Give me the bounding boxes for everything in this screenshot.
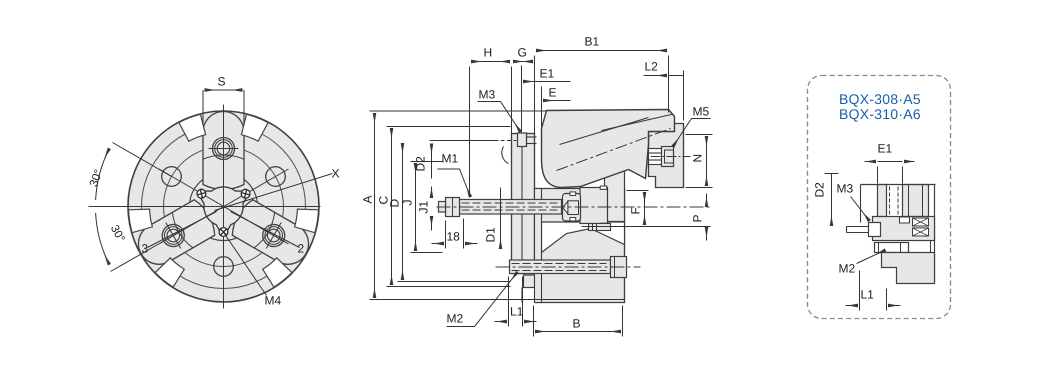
18 dim: [445, 221, 447, 249]
white pocket above scroll: [542, 222, 625, 253]
main centerline: [437, 206, 711, 208]
30deg label upper: [89, 169, 102, 187]
body lower mass: [536, 189, 625, 303]
jaw arm lower-right: [131, 197, 219, 272]
M3 screw detail: [869, 223, 881, 237]
detail rim strips: [878, 185, 887, 217]
L2 dim: [683, 71, 685, 121]
M5 centerline: [635, 156, 691, 158]
G dim: [511, 67, 513, 134]
30deg label lower: [111, 224, 126, 242]
jaw slant line1: [560, 118, 649, 145]
D dim: [402, 143, 404, 280]
rim wedge slot right of top arm: [241, 114, 268, 141]
bevel pinion socket: [568, 201, 579, 215]
arm step arcs: [203, 155, 244, 159]
jaw arm top: [203, 111, 244, 189]
jaw slant line2: [602, 114, 674, 131]
D2 dim: [431, 144, 433, 179]
M1 screw head: [446, 198, 460, 217]
back plate: [512, 134, 535, 274]
M2 leader: [447, 272, 518, 327]
N block: [649, 124, 684, 188]
block tabs: [570, 192, 576, 196]
F dim: [627, 190, 649, 192]
M4 label leader: [224, 233, 267, 296]
chuck outer disk: [128, 111, 319, 302]
small arc near fillet: [502, 147, 509, 164]
M2 screw: [510, 260, 611, 274]
bolt circle r60: [164, 147, 284, 267]
blue model text 2: [840, 109, 920, 121]
J1 dim: [431, 187, 433, 199]
hub strip: [535, 189, 542, 303]
M3 leader detail: [851, 197, 870, 222]
bolt hole 150deg: [162, 167, 182, 187]
M4 screw 270: [219, 228, 228, 237]
hub circle r34: [190, 173, 258, 241]
dim texts: [585, 37, 598, 45]
A dim: [374, 113, 376, 298]
arm screw top: [209, 134, 239, 164]
M5 pocket: [649, 149, 662, 165]
lower body step: [882, 253, 935, 284]
M5 screw head: [662, 147, 674, 167]
blue model text 1: [840, 94, 920, 106]
centerline horizontal: [89, 206, 321, 208]
centerline vertical: [223, 105, 225, 309]
L1 dim detail: [859, 271, 861, 311]
E1 dim: [521, 66, 523, 133]
bolt hole 270deg: [214, 257, 234, 277]
C dim: [391, 128, 393, 285]
M1 screw shaft: [460, 200, 562, 215]
leaders: [438, 102, 711, 327]
rim wedge slot left of top arm: [179, 114, 206, 141]
N dim: [686, 134, 713, 136]
B1 dim: [534, 56, 536, 134]
jaw arm lower-left: [228, 197, 316, 272]
jaw wedge: [542, 110, 675, 188]
pinion block big: [580, 188, 608, 224]
M5 leader: [673, 119, 711, 147]
body upper-right rim: [605, 169, 625, 222]
L1 dim: [508, 277, 510, 327]
jaw dash centerline: [557, 129, 671, 171]
M1 leader: [438, 169, 471, 197]
30 deg angle lines: [96, 142, 224, 272]
bevel cone: [563, 201, 568, 213]
bolt hole 30deg: [266, 167, 286, 187]
diag centerline 30-210: [159, 169, 289, 244]
H dim: [469, 67, 471, 197]
scroll trefoil hub: [199, 187, 247, 234]
P dim: [706, 194, 708, 208]
wedges of lower-left arm: [289, 201, 326, 238]
J dim: [415, 163, 417, 251]
bearing squares: [900, 217, 929, 236]
B dim: [533, 306, 535, 337]
M2 leader detail: [857, 250, 886, 264]
M3 leader: [478, 102, 521, 133]
label 2: [231, 212, 300, 248]
mid band: [873, 217, 935, 241]
M2 screw detail: [875, 243, 909, 253]
wedges of lower-right arm: [153, 255, 190, 292]
S dimension: [203, 90, 244, 125]
E dim: [541, 87, 543, 127]
D2 dim detail: [825, 173, 839, 175]
D1 dim: [500, 188, 502, 250]
E1 dim detail: [825, 162, 915, 311]
X label and leader: [215, 174, 333, 211]
M3 screw top: [518, 133, 527, 147]
set screw small: [589, 224, 611, 231]
dashed box: [808, 76, 951, 319]
pinion block small: [563, 194, 581, 222]
diag centerline 150-330: [159, 169, 289, 244]
inner circle r82: [142, 125, 306, 289]
label 3: [148, 212, 217, 248]
